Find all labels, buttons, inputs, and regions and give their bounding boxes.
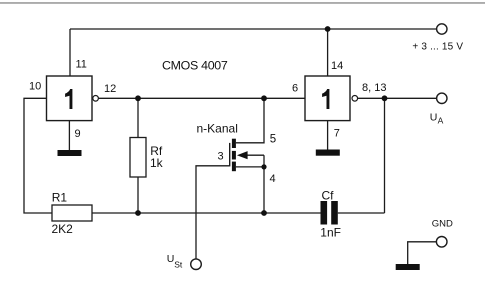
- transistor Q1 source contact bar: [232, 162, 236, 172]
- svg-text:6: 6: [292, 83, 298, 95]
- ground symbol at pin 7: [316, 150, 340, 156]
- wire: inverter A output bus to inverter B input (pin 12 to pin 6): [99, 97, 306, 99]
- node junction: source on bottom bus: [261, 210, 267, 216]
- wire: MOSFET bulk arrow lead: [247, 154, 264, 156]
- node junction: drain on output bus: [261, 95, 267, 101]
- op-amp U1a: CMOS 4007 inverter 1: [47, 76, 93, 121]
- svg-text:n-Kanal: n-Kanal: [197, 121, 238, 135]
- top page border rule: [0, 2, 485, 4]
- transistor Q1 drain contact bar: [232, 139, 236, 148]
- transistor Q1 bulk contact bar: [232, 151, 236, 160]
- terminal: +3..15V supply: [437, 24, 447, 34]
- wire: Cf right to output vertical: [338, 212, 385, 214]
- svg-text:4: 4: [270, 173, 276, 185]
- terminal: UA output: [437, 93, 447, 103]
- ground symbol at pin 9: [58, 150, 82, 156]
- capacitor Cf plate left: [321, 201, 328, 225]
- svg-text:+ 3 ... 15 V: + 3 ... 15 V: [412, 42, 463, 53]
- wire: MOSFET source/bulk down to bottom bus: [263, 155, 265, 213]
- wire: MOSFET drain (pin 5) to output bus: [236, 98, 264, 143]
- inverter bubble U1b output: [352, 96, 358, 102]
- wire: pin 7 to ground: [327, 121, 329, 150]
- svg-text:2K2: 2K2: [52, 222, 74, 236]
- svg-text:8, 13: 8, 13: [362, 82, 386, 94]
- node junction: R1/Rf bottom bus: [135, 210, 141, 216]
- wire: gate (pin 3) to USt terminal: [196, 166, 230, 259]
- svg-text:7: 7: [334, 128, 340, 140]
- svg-text:CMOS 4007: CMOS 4007: [162, 59, 228, 73]
- svg-text:12: 12: [104, 83, 116, 95]
- wire: Rf bottom lead: [137, 177, 139, 213]
- node junction: source-bulk tie: [261, 164, 266, 169]
- svg-text:11: 11: [76, 59, 87, 71]
- svg-text:St: St: [174, 259, 183, 269]
- wire: +V top rail: [70, 28, 437, 30]
- wire: GND terminal to ground symbol: [408, 242, 437, 264]
- transistor Q1 bulk arrowhead: [237, 151, 248, 159]
- svg-text:1nF: 1nF: [320, 225, 341, 239]
- svg-text:GND: GND: [432, 219, 453, 230]
- wire: output node down to bottom bus: [384, 98, 386, 213]
- node junction: UA output node: [382, 95, 388, 101]
- op-amp U1b: CMOS 4007 inverter 2: [305, 76, 350, 121]
- terminal: GND: [436, 237, 447, 248]
- wire: pin 10 feedback to R1 left: [24, 98, 52, 213]
- node junction: pin14 on top rail: [325, 26, 331, 32]
- node junction: Rf top on output bus: [135, 95, 141, 101]
- resistor Rf: [130, 138, 146, 178]
- svg-text:10: 10: [29, 81, 41, 93]
- terminal: USt input: [191, 259, 202, 270]
- resistor R1: [52, 205, 92, 221]
- wire: pin 11 to top rail: [69, 29, 71, 76]
- svg-text:U: U: [430, 111, 438, 123]
- svg-text:Cf: Cf: [322, 188, 335, 202]
- wire: pin 14 to top rail: [327, 30, 329, 76]
- capacitor Cf plate right: [331, 201, 338, 225]
- svg-text:14: 14: [331, 60, 343, 72]
- svg-text:1k: 1k: [150, 156, 164, 170]
- wire: inverter B output to UA terminal: [358, 97, 437, 99]
- inverter bubble U1a output: [93, 96, 99, 102]
- wire: MOSFET source (pin 4) lead: [236, 166, 264, 168]
- wire: Rf top lead: [137, 98, 139, 137]
- svg-text:A: A: [438, 116, 444, 126]
- svg-text:3: 3: [218, 151, 224, 163]
- wire: R1 right to Cf left (bottom bus): [92, 212, 321, 214]
- ground symbol at GND terminal: [396, 264, 420, 270]
- svg-text:5: 5: [270, 134, 276, 146]
- svg-text:9: 9: [75, 128, 81, 140]
- svg-text:R1: R1: [52, 190, 68, 204]
- transistor Q1 n-channel MOSFET gate plate: [229, 143, 231, 167]
- wire: pin 9 to ground: [68, 121, 70, 150]
